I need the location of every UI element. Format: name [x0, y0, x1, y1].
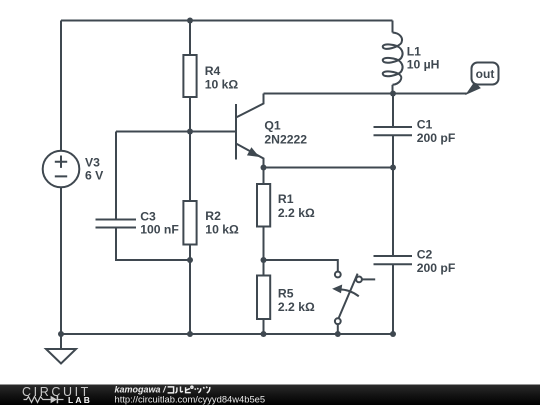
wire to switch top: [264, 260, 338, 271]
svg-text:C2: C2: [417, 247, 433, 261]
wire C3 bottom lead: [116, 228, 190, 261]
resistor R5: [257, 260, 270, 334]
switch SW1: [333, 272, 375, 325]
svg-text:6 V: 6 V: [85, 169, 104, 183]
logo zigzag resistor: [24, 397, 51, 403]
svg-text:V3: V3: [85, 155, 100, 169]
svg-text:out: out: [476, 67, 495, 81]
resistor R4: [183, 21, 196, 132]
junction emitter node: [261, 165, 267, 171]
junction V3 ground rail: [58, 331, 64, 337]
svg-text:Q1: Q1: [264, 118, 280, 132]
svg-text:10 kΩ: 10 kΩ: [205, 78, 239, 92]
capacitor C2: [374, 168, 413, 335]
svg-text:LAB: LAB: [68, 395, 92, 405]
junction R5 ground rail: [261, 331, 267, 337]
wire C3 top lead: [115, 132, 117, 220]
inductor L1: [383, 21, 403, 94]
svg-text:R2: R2: [205, 209, 221, 223]
wire left column top (V3 to top rail): [60, 21, 62, 151]
svg-text:R5: R5: [278, 286, 294, 300]
out flag: [467, 63, 499, 95]
junction R2 bottom node: [187, 257, 193, 263]
junction C1/C2 node: [390, 165, 396, 171]
ground: [46, 334, 76, 364]
junction base node: [187, 129, 193, 135]
svg-text:http://circuitlab.com/cyyyd84w: http://circuitlab.com/cyyyd84w4b5e5: [115, 393, 266, 404]
capacitor C3: [96, 220, 137, 228]
svg-text:200 pF: 200 pF: [417, 131, 456, 145]
svg-text:10 µH: 10 µH: [407, 58, 440, 72]
svg-text:R1: R1: [278, 192, 294, 206]
resistor R2: [183, 132, 196, 261]
svg-text:100 nF: 100 nF: [140, 223, 179, 237]
wire switch bottom lead: [337, 324, 339, 334]
wire collector rail: [264, 93, 468, 95]
capacitor C1: [374, 94, 413, 168]
junction C2 ground rail: [390, 331, 396, 337]
wire R2 node to bottom rail: [189, 260, 191, 334]
svg-text:2N2222: 2N2222: [264, 133, 307, 147]
junction R2 ground rail: [187, 331, 193, 337]
svg-text:10 kΩ: 10 kΩ: [205, 223, 239, 237]
junction R1/R5 node: [261, 257, 267, 263]
junction switch ground rail: [335, 331, 341, 337]
svg-text:R4: R4: [205, 64, 221, 78]
transistor Q1: [236, 94, 264, 168]
svg-text:200 pF: 200 pF: [417, 261, 456, 275]
junction R4 top rail: [187, 18, 193, 24]
svg-text:L1: L1: [407, 45, 421, 59]
wire top rail: [61, 20, 393, 22]
wire left column bottom (V3 to bottom rail): [60, 187, 62, 334]
logo diode: [51, 396, 64, 404]
svg-text:2.2 kΩ: 2.2 kΩ: [278, 206, 315, 220]
resistor R1: [257, 168, 270, 261]
footer bar: [0, 385, 540, 405]
junction L1/C1/out node: [390, 91, 396, 97]
svg-text:C3: C3: [140, 210, 156, 224]
wire emitter rail: [264, 167, 394, 169]
footer katakana コルピッツ: [168, 386, 210, 393]
svg-text:C1: C1: [417, 117, 433, 131]
wire bottom rail: [61, 333, 393, 335]
voltage source V3: [43, 151, 80, 188]
svg-text:2.2 kΩ: 2.2 kΩ: [278, 300, 315, 314]
wire base node to Q1: [116, 131, 236, 133]
